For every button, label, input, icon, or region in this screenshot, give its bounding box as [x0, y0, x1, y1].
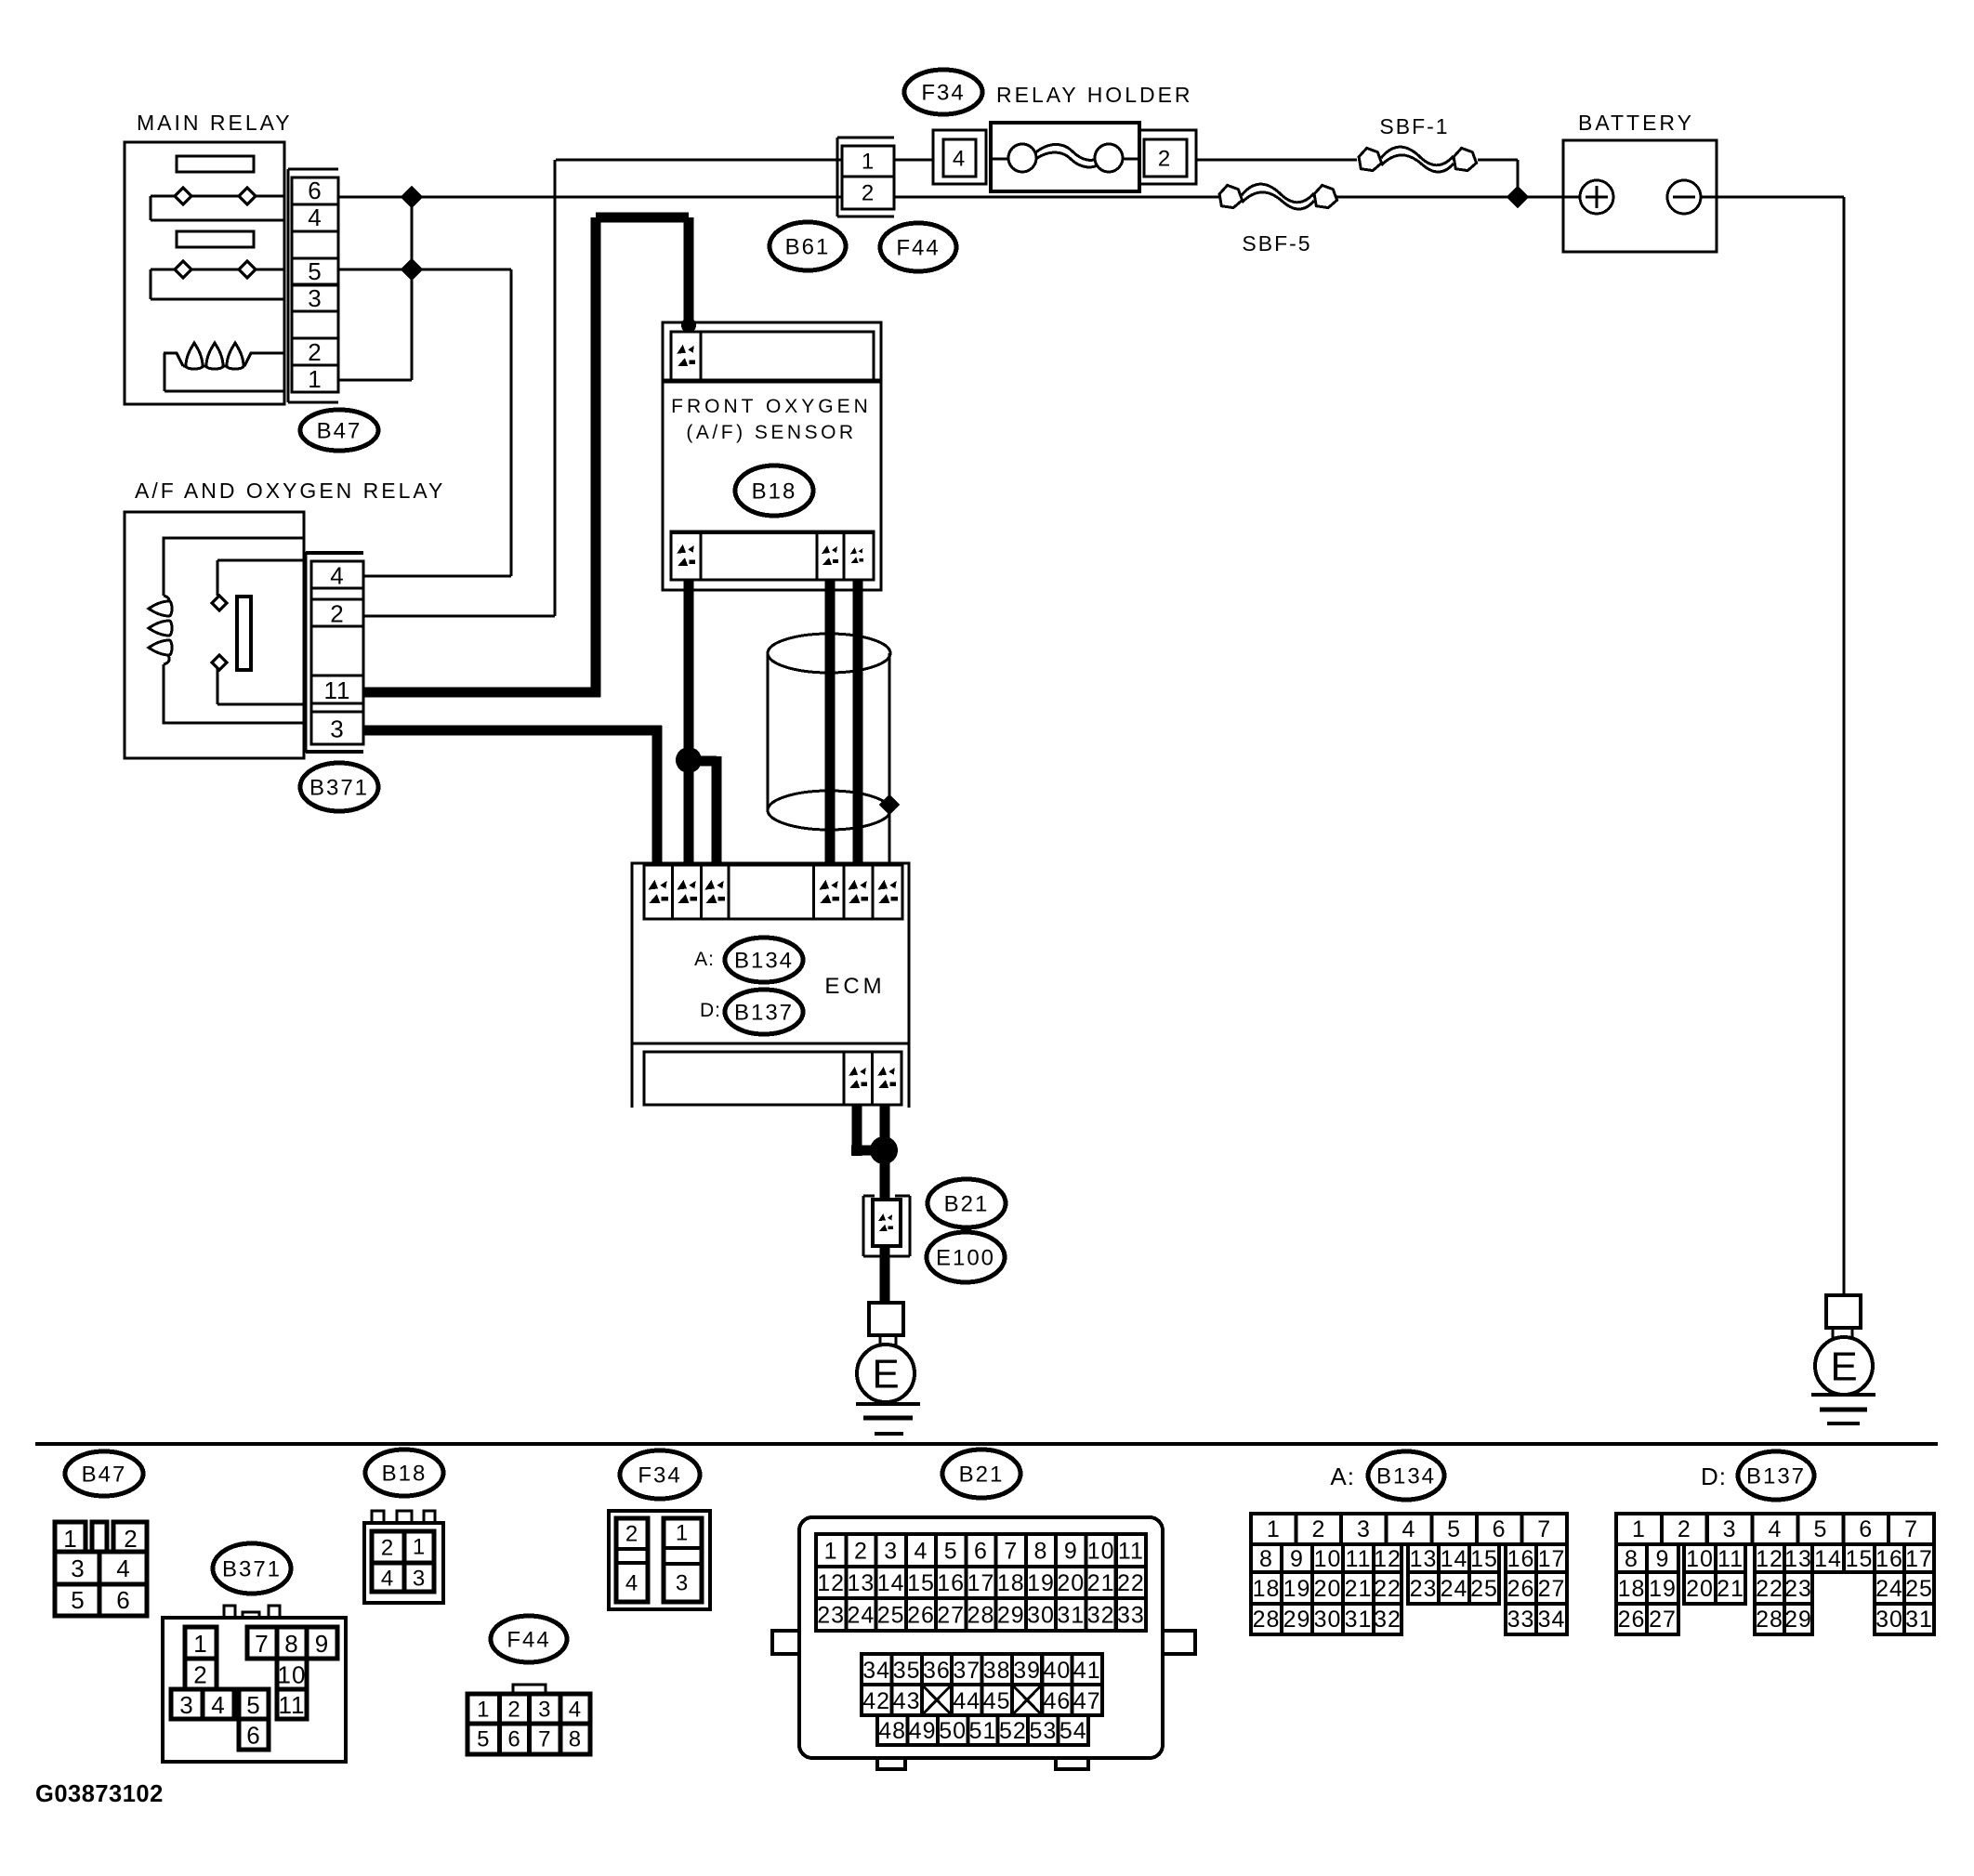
svg-text:3: 3 [1723, 1516, 1737, 1542]
svg-text:15: 15 [1846, 1546, 1874, 1572]
svg-text:(A/F) SENSOR: (A/F) SENSOR [686, 422, 856, 443]
svg-text:F44: F44 [896, 236, 940, 261]
svg-text:5: 5 [1813, 1516, 1827, 1542]
svg-text:B371: B371 [222, 1557, 282, 1582]
svg-text:21: 21 [1345, 1576, 1373, 1602]
svg-text:7: 7 [1537, 1516, 1551, 1542]
svg-text:9: 9 [1064, 1539, 1078, 1565]
svg-text:3: 3 [308, 284, 322, 312]
svg-text:17: 17 [967, 1570, 995, 1596]
svg-text:E100: E100 [936, 1246, 995, 1271]
svg-text:1: 1 [308, 365, 322, 393]
svg-text:34: 34 [1538, 1607, 1566, 1633]
svg-text:30: 30 [1314, 1607, 1342, 1633]
svg-text:19: 19 [1027, 1570, 1055, 1596]
svg-text:27: 27 [1649, 1607, 1677, 1633]
svg-text:20: 20 [1686, 1576, 1714, 1602]
svg-text:12: 12 [1756, 1546, 1783, 1572]
svg-text:28: 28 [967, 1603, 995, 1629]
svg-text:38: 38 [983, 1658, 1011, 1684]
svg-text:31: 31 [1057, 1603, 1085, 1629]
svg-text:B137: B137 [1746, 1464, 1806, 1489]
svg-text:7: 7 [538, 1727, 551, 1752]
svg-text:54: 54 [1059, 1718, 1087, 1744]
svg-text:1: 1 [63, 1525, 77, 1553]
svg-text:17: 17 [1905, 1546, 1933, 1572]
svg-text:22: 22 [1117, 1570, 1145, 1596]
svg-text:24: 24 [847, 1603, 875, 1629]
svg-text:18: 18 [1253, 1576, 1281, 1602]
svg-text:B371: B371 [309, 776, 369, 801]
svg-text:G03873102: G03873102 [35, 1781, 164, 1807]
svg-text:26: 26 [907, 1603, 935, 1629]
svg-text:2: 2 [1311, 1516, 1325, 1542]
svg-text:8: 8 [284, 1630, 298, 1658]
svg-text:3: 3 [538, 1698, 551, 1723]
svg-text:B137: B137 [734, 1001, 794, 1026]
svg-text:B61: B61 [785, 235, 831, 260]
svg-text:16: 16 [1507, 1546, 1535, 1572]
svg-text:42: 42 [862, 1688, 890, 1714]
svg-text:36: 36 [923, 1658, 951, 1684]
svg-text:1: 1 [477, 1698, 490, 1723]
svg-text:6: 6 [507, 1727, 520, 1752]
svg-text:1: 1 [413, 1535, 426, 1560]
svg-text:18: 18 [1618, 1576, 1646, 1602]
svg-text:2: 2 [330, 600, 344, 628]
svg-text:2: 2 [1678, 1516, 1691, 1542]
svg-text:5: 5 [944, 1539, 958, 1565]
svg-text:8: 8 [1034, 1539, 1048, 1565]
svg-text:21: 21 [1087, 1570, 1115, 1596]
svg-text:8: 8 [1259, 1546, 1273, 1572]
svg-text:47: 47 [1073, 1688, 1101, 1714]
svg-text:4: 4 [625, 1571, 638, 1596]
svg-text:3: 3 [179, 1691, 193, 1719]
svg-text:4: 4 [569, 1698, 582, 1723]
svg-text:23: 23 [1410, 1576, 1438, 1602]
svg-text:3: 3 [330, 715, 344, 743]
svg-text:27: 27 [1538, 1576, 1566, 1602]
svg-text:4: 4 [1402, 1516, 1416, 1542]
svg-text:A:: A: [694, 949, 715, 970]
svg-text:26: 26 [1507, 1576, 1535, 1602]
svg-text:32: 32 [1374, 1607, 1402, 1633]
svg-text:11: 11 [1118, 1539, 1144, 1565]
svg-text:SBF-5: SBF-5 [1242, 231, 1311, 256]
svg-text:4: 4 [116, 1555, 130, 1582]
svg-text:19: 19 [1649, 1576, 1677, 1602]
svg-text:D:: D: [700, 1000, 721, 1021]
svg-text:8: 8 [569, 1727, 582, 1752]
svg-text:6: 6 [1493, 1516, 1507, 1542]
svg-text:14: 14 [1814, 1546, 1842, 1572]
svg-text:22: 22 [1756, 1576, 1783, 1602]
svg-text:ECM: ECM [824, 974, 885, 999]
svg-text:13: 13 [847, 1570, 875, 1596]
svg-text:28: 28 [1756, 1607, 1783, 1633]
svg-text:18: 18 [997, 1570, 1025, 1596]
svg-text:12: 12 [817, 1570, 845, 1596]
svg-text:4: 4 [330, 562, 344, 590]
svg-text:31: 31 [1905, 1607, 1933, 1633]
svg-text:50: 50 [939, 1718, 967, 1744]
svg-text:2: 2 [124, 1525, 138, 1553]
svg-text:1: 1 [862, 150, 875, 175]
svg-text:4: 4 [211, 1691, 225, 1719]
svg-text:B47: B47 [82, 1463, 127, 1488]
svg-text:5: 5 [1447, 1516, 1461, 1542]
svg-text:25: 25 [1470, 1576, 1498, 1602]
svg-text:14: 14 [1441, 1546, 1468, 1572]
svg-text:7: 7 [255, 1630, 269, 1658]
svg-text:41: 41 [1073, 1658, 1101, 1684]
svg-text:32: 32 [1087, 1603, 1115, 1629]
svg-text:29: 29 [1784, 1607, 1812, 1633]
svg-text:1: 1 [193, 1630, 207, 1658]
svg-text:10: 10 [278, 1661, 307, 1689]
svg-text:23: 23 [1784, 1576, 1812, 1602]
svg-text:2: 2 [381, 1536, 394, 1561]
svg-text:E: E [872, 1352, 899, 1397]
svg-text:9: 9 [1656, 1546, 1670, 1572]
svg-text:10: 10 [1686, 1546, 1714, 1572]
svg-text:11: 11 [1717, 1546, 1744, 1572]
svg-text:30: 30 [1027, 1603, 1055, 1629]
svg-text:15: 15 [1470, 1546, 1498, 1572]
svg-text:44: 44 [953, 1688, 980, 1714]
svg-text:37: 37 [953, 1658, 980, 1684]
svg-text:11: 11 [1346, 1546, 1372, 1572]
svg-text:F34: F34 [638, 1463, 681, 1489]
svg-text:13: 13 [1410, 1546, 1438, 1572]
svg-text:B21: B21 [944, 1192, 990, 1217]
svg-text:F34: F34 [921, 81, 965, 106]
svg-text:10: 10 [1314, 1546, 1342, 1572]
svg-text:46: 46 [1043, 1688, 1071, 1714]
svg-text:D:: D: [1701, 1463, 1727, 1490]
svg-text:1: 1 [1632, 1516, 1646, 1542]
svg-text:1: 1 [676, 1521, 689, 1546]
svg-text:5: 5 [477, 1727, 490, 1752]
svg-text:13: 13 [1784, 1546, 1812, 1572]
svg-text:3: 3 [884, 1539, 898, 1565]
svg-text:14: 14 [877, 1570, 905, 1596]
svg-text:MAIN RELAY: MAIN RELAY [137, 111, 293, 135]
svg-text:11: 11 [324, 676, 351, 704]
svg-text:21: 21 [1717, 1576, 1744, 1602]
svg-text:34: 34 [862, 1658, 890, 1684]
svg-text:2: 2 [854, 1539, 868, 1565]
svg-text:11: 11 [279, 1691, 306, 1719]
svg-text:48: 48 [878, 1718, 906, 1744]
svg-text:24: 24 [1875, 1576, 1903, 1602]
svg-text:27: 27 [937, 1603, 965, 1629]
svg-text:8: 8 [1625, 1546, 1638, 1572]
svg-text:20: 20 [1314, 1576, 1342, 1602]
svg-text:2: 2 [193, 1661, 207, 1689]
svg-text:25: 25 [877, 1603, 905, 1629]
svg-text:B134: B134 [734, 949, 794, 974]
svg-text:35: 35 [893, 1658, 921, 1684]
svg-text:A:: A: [1330, 1463, 1355, 1490]
svg-text:22: 22 [1374, 1576, 1402, 1602]
svg-text:B47: B47 [317, 419, 362, 444]
svg-text:33: 33 [1507, 1607, 1535, 1633]
svg-text:FRONT OXYGEN: FRONT OXYGEN [671, 396, 872, 417]
svg-text:1: 1 [824, 1539, 838, 1565]
svg-text:2: 2 [1158, 147, 1171, 172]
svg-text:23: 23 [817, 1603, 845, 1629]
svg-text:20: 20 [1057, 1570, 1085, 1596]
svg-text:25: 25 [1905, 1576, 1933, 1602]
svg-text:15: 15 [907, 1570, 935, 1596]
svg-text:40: 40 [1043, 1658, 1071, 1684]
svg-text:4: 4 [953, 147, 966, 172]
svg-text:33: 33 [1117, 1603, 1145, 1629]
svg-text:9: 9 [1290, 1546, 1304, 1572]
svg-text:5: 5 [246, 1691, 260, 1719]
svg-text:24: 24 [1441, 1576, 1468, 1602]
svg-text:30: 30 [1875, 1607, 1903, 1633]
svg-text:16: 16 [937, 1570, 965, 1596]
svg-text:17: 17 [1538, 1546, 1566, 1572]
svg-text:5: 5 [308, 257, 322, 285]
svg-text:12: 12 [1374, 1546, 1402, 1572]
svg-text:6: 6 [246, 1722, 260, 1750]
svg-text:52: 52 [999, 1718, 1027, 1744]
svg-text:B18: B18 [752, 479, 797, 505]
svg-text:B18: B18 [382, 1462, 428, 1487]
svg-text:4: 4 [915, 1539, 928, 1565]
svg-text:51: 51 [969, 1718, 997, 1744]
svg-text:A/F AND OXYGEN RELAY: A/F AND OXYGEN RELAY [135, 479, 445, 503]
svg-text:1: 1 [1267, 1516, 1281, 1542]
svg-text:2: 2 [862, 181, 875, 206]
svg-text:29: 29 [997, 1603, 1025, 1629]
svg-text:4: 4 [308, 203, 322, 231]
svg-text:E: E [1830, 1345, 1857, 1390]
svg-text:7: 7 [1904, 1516, 1918, 1542]
svg-text:26: 26 [1618, 1607, 1646, 1633]
svg-text:6: 6 [308, 177, 322, 204]
svg-text:BATTERY: BATTERY [1578, 111, 1694, 135]
svg-text:B134: B134 [1376, 1464, 1436, 1489]
svg-text:5: 5 [71, 1586, 85, 1614]
svg-text:3: 3 [1357, 1516, 1371, 1542]
svg-text:4: 4 [1769, 1516, 1783, 1542]
svg-text:10: 10 [1087, 1539, 1115, 1565]
svg-text:28: 28 [1253, 1607, 1281, 1633]
svg-text:19: 19 [1283, 1576, 1311, 1602]
svg-text:7: 7 [1004, 1539, 1018, 1565]
svg-text:53: 53 [1029, 1718, 1057, 1744]
svg-text:6: 6 [116, 1586, 130, 1614]
svg-text:RELAY HOLDER: RELAY HOLDER [996, 83, 1193, 107]
svg-text:SBF-1: SBF-1 [1379, 114, 1449, 138]
svg-text:9: 9 [315, 1630, 329, 1658]
svg-text:3: 3 [71, 1555, 85, 1582]
svg-text:6: 6 [1859, 1516, 1873, 1542]
svg-text:3: 3 [413, 1567, 426, 1592]
svg-text:B21: B21 [959, 1463, 1005, 1488]
svg-text:49: 49 [909, 1718, 937, 1744]
svg-text:31: 31 [1345, 1607, 1373, 1633]
svg-text:45: 45 [983, 1688, 1011, 1714]
svg-text:F44: F44 [507, 1628, 550, 1653]
svg-text:2: 2 [507, 1698, 520, 1723]
svg-text:6: 6 [974, 1539, 988, 1565]
svg-text:4: 4 [381, 1567, 394, 1592]
svg-text:2: 2 [308, 338, 322, 366]
svg-text:2: 2 [625, 1522, 638, 1547]
svg-text:16: 16 [1875, 1546, 1903, 1572]
svg-text:43: 43 [893, 1688, 921, 1714]
svg-text:29: 29 [1283, 1607, 1311, 1633]
svg-text:39: 39 [1013, 1658, 1041, 1684]
svg-text:3: 3 [676, 1571, 689, 1596]
